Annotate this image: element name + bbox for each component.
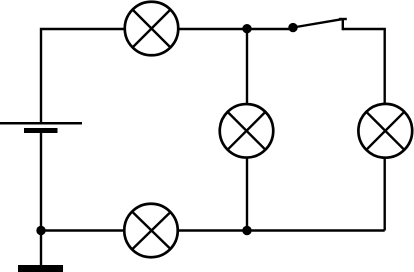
battery B1 [0,123,82,130]
wire: bottom rail [41,229,385,231]
node: top junction of middle branch [242,24,251,33]
ground [18,265,63,272]
lamp L3 (right) [358,104,412,158]
switch S1 (open) [293,19,347,30]
lamp L4 (bottom) [124,204,178,258]
wire: battery positive up and top rail to switch pivot [41,29,293,123]
lamp L1 (top) [125,2,179,56]
node: bottom junction of middle branch [242,226,251,235]
wire: battery negative down to ground [40,131,42,266]
node: bottom-left junction [36,226,45,235]
node: switch pivot [288,23,297,32]
wire: middle branch vertical from top rail to bottom rail [246,29,248,231]
wire: switch contact to top-right corner and right branch vertical [343,29,385,231]
lamp L2 (middle) [220,104,274,158]
